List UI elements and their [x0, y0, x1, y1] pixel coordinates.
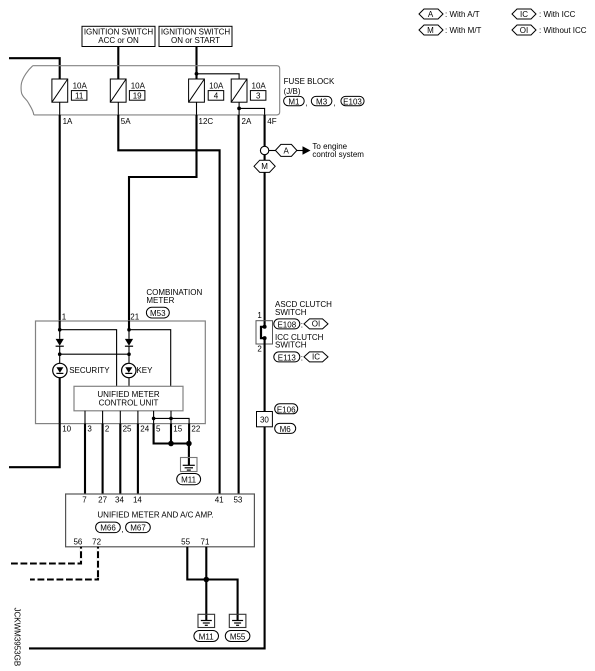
svg-text:M6: M6 [280, 425, 292, 434]
svg-text:M1: M1 [288, 97, 300, 106]
connector oval M3 [311, 96, 335, 107]
svg-text:27: 27 [98, 496, 107, 505]
wire control unit pin 5 [153, 411, 155, 424]
svg-text:M66: M66 [100, 524, 116, 533]
svg-text:M11: M11 [181, 476, 197, 485]
wire link to pin 22 [154, 418, 190, 423]
diode D1 [56, 339, 64, 346]
svg-text:21: 21 [130, 312, 139, 321]
wire control unit pin 25 [119, 411, 121, 424]
label ASCD CLUTCH SWITCH [275, 300, 332, 317]
label To engine control system [312, 142, 364, 159]
ground name oval M11 [177, 474, 201, 485]
unified meter control unit box [74, 386, 183, 411]
wire battery feed to fuse 11 [9, 58, 60, 79]
svg-text:7: 7 [82, 496, 87, 505]
wire control unit pin 24 [137, 411, 139, 424]
svg-text:E113: E113 [278, 353, 297, 362]
svg-text:A: A [284, 146, 290, 155]
fuse block J/B enclosure [21, 66, 280, 115]
svg-text:CONTROL UNIT: CONTROL UNIT [99, 398, 159, 407]
svg-text:ACC or ON: ACC or ON [98, 36, 139, 45]
wire clutch switch pin 2 down [264, 338, 266, 412]
svg-text:M55: M55 [230, 632, 246, 641]
svg-text:25: 25 [123, 425, 132, 434]
svg-text:E106: E106 [277, 405, 296, 414]
ground symbol M55 (bottom) [229, 614, 246, 627]
svg-text:,: , [305, 99, 307, 108]
wire pin 55 down [187, 547, 206, 580]
junction dot ground bus 22 [186, 441, 192, 447]
svg-text:4F: 4F [267, 117, 276, 126]
clutch switch enclosure [256, 321, 273, 344]
wire 2A to amp pin 53 [238, 115, 240, 494]
wire fuse 4 output inside block [196, 102, 198, 115]
junction dot pin 15 link [169, 417, 173, 421]
svg-text:53: 53 [233, 496, 242, 505]
wire pin 5 to ground bus [154, 424, 189, 444]
wire security lamp to pin 10 [59, 378, 61, 424]
wire pin 24 to amp pin 14 [137, 424, 139, 494]
svg-text:10A: 10A [73, 82, 88, 91]
connector oval E113 with IC [274, 352, 328, 363]
svg-text:(J/B): (J/B) [284, 87, 301, 96]
svg-text:IC: IC [520, 10, 528, 19]
wire branch to fuse 3 [197, 74, 240, 79]
junction dot ground bus 15 [168, 441, 174, 447]
svg-text:10A: 10A [209, 82, 224, 91]
wire ground bus to ground M11 [188, 444, 190, 466]
key indicator lamp [122, 363, 136, 377]
svg-text:41: 41 [215, 496, 224, 505]
ground symbol M11 (meter) [181, 458, 198, 472]
wire pin 25 to amp pin 34 [119, 424, 121, 494]
svg-text:10A: 10A [252, 82, 267, 91]
svg-text:56: 56 [73, 537, 82, 546]
svg-text:3: 3 [87, 425, 92, 434]
combination meter enclosure [36, 321, 206, 424]
junction dot pin1 [58, 328, 62, 332]
legend hexagon IC [512, 9, 536, 19]
wire control unit pin 15 [170, 411, 172, 424]
svg-text:: With ICC: : With ICC [539, 10, 576, 19]
wire 12C to meter pin 21 [129, 115, 197, 321]
wire hexagon M to clutch switch pin 1 [264, 172, 266, 326]
wire pin 15 to ground bus [170, 424, 172, 444]
svg-text:,: , [121, 525, 123, 534]
wire pin21 internal [128, 321, 130, 330]
wire fuse 3 output inside block [238, 102, 240, 115]
svg-text:IC: IC [312, 353, 320, 362]
diode D2 [125, 339, 133, 346]
wire key lamp to control unit [128, 378, 130, 387]
svg-text:15: 15 [173, 425, 182, 434]
svg-text:,: , [334, 99, 336, 108]
svg-text:E108: E108 [277, 320, 296, 329]
connector oval E106 [275, 404, 298, 415]
security indicator lamp [53, 363, 67, 377]
svg-text:30: 30 [260, 415, 269, 424]
ground name oval M55 bottom [225, 631, 250, 642]
svg-text:SWITCH: SWITCH [275, 308, 307, 317]
svg-text:1A: 1A [63, 117, 73, 126]
ground name oval M11 bottom [194, 631, 219, 642]
label ICC CLUTCH SWITCH [275, 333, 324, 350]
svg-text:FUSE BLOCK: FUSE BLOCK [284, 77, 335, 86]
wire link between diode outputs [60, 353, 129, 355]
svg-text:1: 1 [62, 312, 67, 321]
junction dot below D2 [127, 352, 131, 356]
wire pin 22 to ground bus [188, 424, 190, 444]
svg-text::: : [301, 353, 303, 362]
wire diode D1 to security lamp [59, 346, 61, 363]
svg-text:METER: METER [146, 296, 174, 305]
svg-text:11: 11 [75, 91, 84, 100]
wire fuse 11 output inside block [59, 102, 61, 115]
svg-text:3: 3 [256, 91, 261, 100]
svg-text:71: 71 [201, 537, 210, 546]
connector oval M1 [284, 96, 308, 107]
svg-text:4: 4 [214, 91, 219, 100]
svg-text:72: 72 [92, 537, 101, 546]
svg-text:5A: 5A [121, 117, 131, 126]
clutch switch contacts and lever [261, 325, 267, 340]
wire pin21 branch to control unit [129, 330, 171, 387]
connector oval M6 [275, 423, 296, 434]
svg-text:M3: M3 [316, 97, 328, 106]
wire connector 30 down right side to bottom left [29, 427, 265, 649]
legend hexagon M [419, 25, 443, 35]
wire ignition ACC feed to fuse 19 [117, 47, 119, 80]
hexagon M on wire [254, 160, 275, 172]
shielded wire pin 56 to left [11, 547, 81, 564]
svg-text:M11: M11 [199, 632, 215, 641]
wire node to hexagon A [269, 150, 276, 152]
svg-text:10: 10 [62, 425, 71, 434]
svg-text:A: A [428, 10, 434, 19]
svg-text:2A: 2A [242, 117, 252, 126]
junction dot below D1 [58, 352, 62, 356]
wire ignition ON feed to fuse 4 [195, 47, 197, 80]
harness connector box 30 [257, 412, 273, 427]
svg-text:1: 1 [257, 311, 262, 320]
legend hexagon A [419, 9, 443, 19]
connector oval M53 [146, 307, 169, 318]
svg-text:: Without ICC: : Without ICC [539, 26, 587, 35]
fuse 10A 19 [110, 79, 145, 102]
junction dot fuse feed [195, 72, 199, 76]
junction dot pin 5 link [152, 417, 156, 421]
connector oval M66 [96, 522, 124, 534]
svg-text:SECURITY: SECURITY [69, 366, 110, 375]
svg-text:ON or START: ON or START [171, 36, 220, 45]
legend hexagon OI [512, 25, 536, 35]
wire branch to 4F [239, 108, 265, 115]
arrow to engine control system [297, 146, 311, 154]
svg-text:: With M/T: : With M/T [445, 26, 482, 35]
wire control unit pin 2 [102, 411, 104, 424]
svg-text:12C: 12C [199, 117, 214, 126]
fuse 10A 11 [52, 79, 88, 102]
junction dot pin21 [127, 328, 131, 332]
wire 1A to meter pin 1 [59, 115, 61, 321]
fuse 10A 4 [189, 79, 224, 102]
wire node to hexagon M [264, 155, 266, 161]
wire pin1 internal [59, 321, 61, 330]
svg-text:2: 2 [105, 425, 110, 434]
svg-text:14: 14 [133, 496, 142, 505]
svg-text:E103: E103 [343, 97, 362, 106]
junction dot 2A/4F [237, 107, 241, 111]
svg-text:M: M [261, 162, 268, 171]
svg-text:UNIFIED METER AND A/C AMP.: UNIFIED METER AND A/C AMP. [97, 511, 213, 520]
ignition switch box ON or START [159, 26, 232, 46]
shielded wire pin 72 to left [30, 547, 98, 580]
wire diode D2 to key lamp [128, 346, 130, 363]
wire pin 3 to amp pin 7 [84, 424, 86, 494]
connector oval E103 [341, 96, 364, 106]
svg-text:KEY: KEY [136, 366, 153, 375]
svg-text:10A: 10A [131, 82, 146, 91]
wire 4F down to node [264, 115, 266, 146]
wire pin1 branch to control unit [60, 330, 117, 387]
svg-text:OI: OI [312, 320, 320, 329]
connector oval E108 with OI [274, 319, 328, 330]
svg-text:M: M [427, 26, 434, 35]
svg-text:55: 55 [181, 537, 190, 546]
label COMBINATION METER [146, 288, 202, 305]
label FUSE BLOCK (J/B) [284, 77, 335, 96]
svg-text:JCKWM3953GB: JCKWM3953GB [13, 608, 22, 667]
svg-text:34: 34 [115, 496, 124, 505]
ignition switch box ACC or ON [82, 26, 155, 46]
svg-text:19: 19 [133, 91, 142, 100]
fuse 10A 3 [231, 79, 266, 102]
node circle on 4F wire [260, 146, 268, 154]
svg-text:control system: control system [312, 150, 364, 159]
svg-text:: With A/T: : With A/T [445, 10, 480, 19]
ground symbol M11 (bottom) [198, 614, 215, 627]
hexagon A to engine [275, 144, 297, 156]
svg-text:24: 24 [140, 425, 149, 434]
svg-text::: : [301, 320, 303, 329]
wire control unit pin 3 [84, 411, 86, 424]
svg-text:5: 5 [156, 425, 161, 434]
wire fuse 19 output inside block [117, 102, 119, 115]
svg-text:M67: M67 [130, 524, 146, 533]
svg-text:M53: M53 [150, 309, 166, 318]
svg-text:22: 22 [191, 425, 200, 434]
wire pin 10 to left edge [9, 424, 60, 468]
svg-text:OI: OI [520, 26, 528, 35]
svg-text:2: 2 [257, 345, 262, 354]
wire pin 71 down to ground M11 [205, 547, 207, 621]
wire 5A to amp pin 41 [118, 115, 219, 494]
junction dot grounds [204, 577, 210, 583]
wire branch to ground M55 [206, 580, 237, 621]
svg-text:SWITCH: SWITCH [275, 341, 307, 350]
wire pin 2 to amp pin 27 [102, 424, 104, 494]
unified meter and A/C amp box [66, 494, 255, 547]
connector oval M67 [126, 522, 151, 533]
